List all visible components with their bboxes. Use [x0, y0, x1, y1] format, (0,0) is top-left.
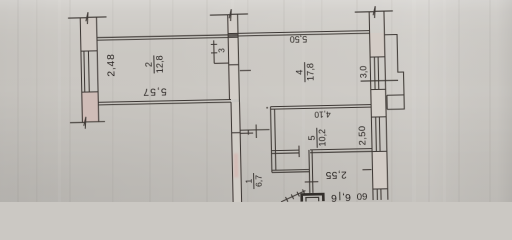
fraction bar room 1 — [253, 173, 255, 189]
svg-text:5,57: 5,57 — [142, 85, 167, 97]
left wall window glazing lines — [84, 51, 89, 92]
middle wall right edge — [238, 14, 240, 102]
room 5 top wall double line — [271, 105, 372, 110]
pink pencil smudge corridor — [234, 153, 239, 177]
svg-text:5,50: 5,50 — [290, 34, 308, 44]
svg-text:2,55: 2,55 — [325, 169, 347, 180]
outer wall step top — [384, 34, 404, 109]
right exterior wall fill 2 — [371, 89, 386, 117]
svg-text:6,7: 6,7 — [254, 175, 264, 187]
middle wall fill — [228, 14, 240, 99]
left wall inner edge — [97, 17, 99, 122]
outer wall step inner line — [387, 95, 404, 109]
thick bathroom box outer — [302, 194, 324, 201]
svg-text:2,48: 2,48 — [106, 53, 117, 76]
svg-text:5: 5 — [307, 135, 317, 140]
right wall window glazing lines — [374, 57, 381, 200]
left exterior wall fill upper — [80, 17, 97, 51]
break line top-left with zigzag — [68, 12, 107, 25]
svg-text:6: 6 — [331, 192, 337, 202]
right wall segment boundaries — [370, 57, 388, 189]
corridor wall left line — [231, 102, 233, 203]
fraction bar room 6 — [339, 192, 341, 200]
corridor wall cross line — [232, 132, 240, 134]
svg-text:4,10: 4,10 — [314, 109, 331, 119]
corridor door leaf tick — [255, 125, 257, 138]
svg-text:10,2: 10,2 — [317, 129, 327, 147]
dimension tick 0,60 — [362, 169, 371, 171]
room 5 left wall double line — [271, 107, 276, 173]
corridor door small tick — [247, 130, 249, 135]
right wall outer edge — [369, 12, 373, 200]
corridor wall strip fill — [231, 102, 242, 203]
scanner streaks — [17, 0, 491, 202]
tick across middle wall — [229, 64, 239, 66]
break line top-right with zigzag — [355, 6, 393, 19]
left exterior wall fill lower — [82, 92, 99, 122]
room 4 top wall double line — [228, 31, 370, 37]
right wall inner edge — [384, 11, 388, 199]
svg-text:4: 4 — [295, 70, 305, 75]
svg-text:1: 1 — [243, 178, 253, 183]
jamb cross tick — [305, 181, 319, 183]
fraction bar room 5 — [316, 128, 318, 148]
svg-text:6,: 6, — [342, 191, 351, 202]
middle wall left edge — [228, 15, 230, 100]
bathroom top wall double line — [272, 169, 310, 172]
fraction bar room 2 — [153, 55, 155, 73]
corridor wall right line — [240, 102, 242, 203]
corridor door threshold lower line — [240, 132, 253, 134]
right exterior wall fill 3 — [372, 151, 388, 189]
svg-text:17,8: 17,8 — [305, 63, 315, 81]
room 2 top wall double line — [97, 35, 238, 41]
door jamb double line below room 5 — [309, 150, 313, 193]
corridor door threshold upper line — [240, 129, 270, 132]
break line top-middle with zigzag — [210, 9, 248, 22]
door mark right of middle wall — [240, 69, 251, 71]
fraction bar room 4 — [304, 62, 306, 82]
svg-text:2,50: 2,50 — [356, 125, 367, 145]
entrance door swing diagonal with ticks — [281, 189, 306, 202]
right exterior wall fill 1 — [370, 33, 385, 57]
closet 3 bottom line — [214, 62, 228, 64]
thick bathroom box inner — [306, 197, 319, 201]
svg-text:3,0: 3,0 — [358, 66, 368, 79]
left wall segment boundaries — [81, 51, 98, 92]
svg-text:2: 2 — [144, 62, 154, 67]
whole plan rotated slightly as in the scan — [68, 6, 407, 210]
room 5 bottom wall double line with door gap — [271, 149, 372, 154]
node dot room5 corner — [266, 107, 268, 109]
closet 3 left line with ticks — [211, 40, 218, 63]
left wall outer edge — [80, 18, 82, 123]
break line bottom-left with zigzag — [70, 116, 105, 129]
svg-text:60: 60 — [357, 190, 368, 201]
wall fills — [80, 11, 388, 206]
svg-text:12,8: 12,8 — [154, 55, 164, 73]
svg-text:3: 3 — [217, 48, 226, 53]
dimension tick 3,0 — [361, 79, 398, 82]
door gap tick — [298, 146, 300, 157]
room 2 bottom wall double line — [98, 100, 231, 105]
